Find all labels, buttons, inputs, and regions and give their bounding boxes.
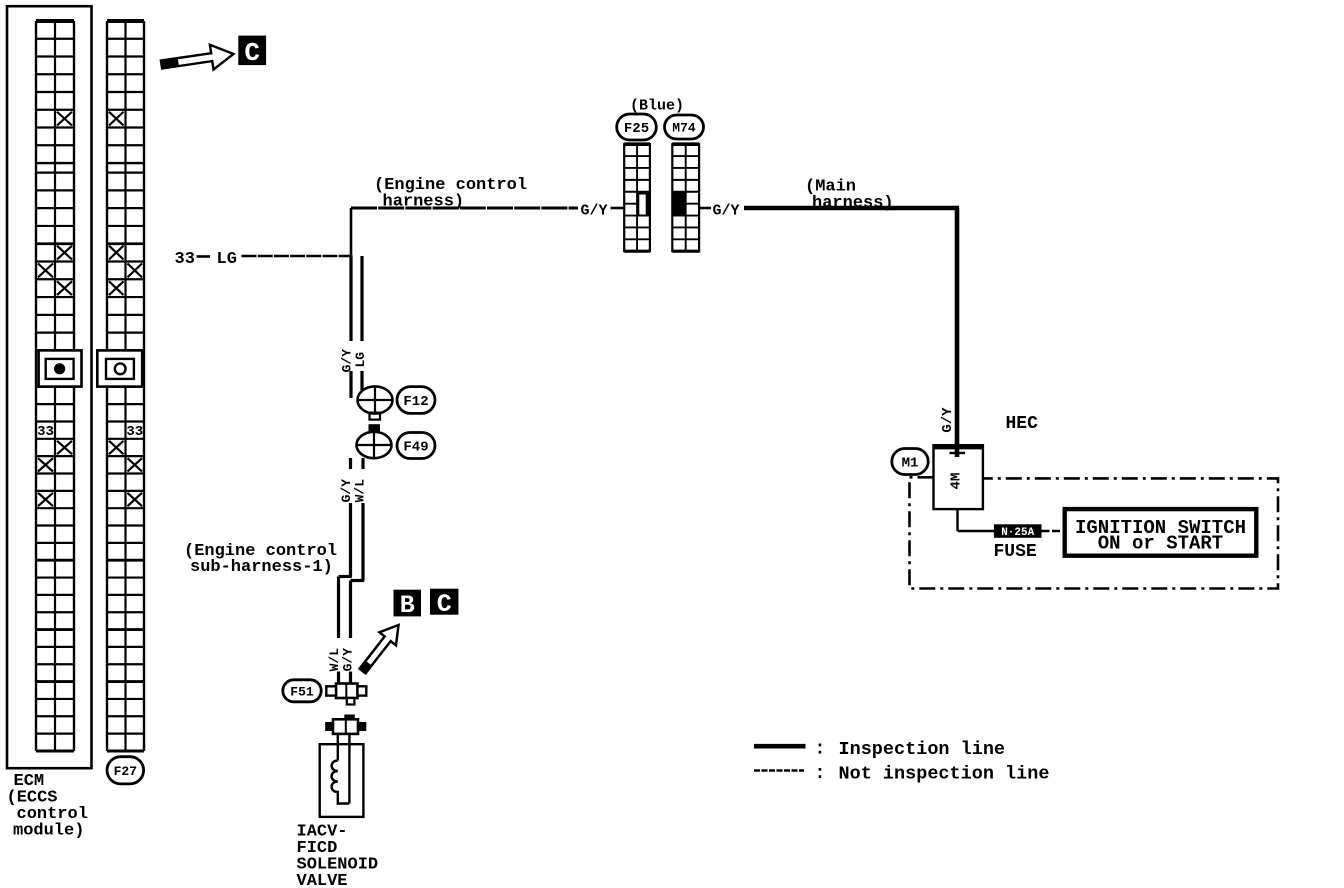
svg-text:N·25A: N·25A [1001,527,1034,539]
svg-text:sub-harness-1): sub-harness-1) [190,558,333,577]
svg-text:33: 33 [126,424,143,440]
svg-text:Inspection line: Inspection line [839,739,1006,760]
svg-text:33: 33 [175,250,195,269]
svg-text:module): module) [13,822,84,841]
svg-text:G/Y: G/Y [581,203,608,220]
svg-text:F12: F12 [403,394,428,410]
svg-text:LG: LG [217,250,237,269]
svg-text:33: 33 [37,424,54,440]
svg-text:G/Y: G/Y [341,648,356,672]
svg-text:F27: F27 [114,764,137,779]
svg-text:Not inspection line: Not inspection line [839,764,1050,785]
svg-text:C: C [244,38,260,68]
svg-text:G/Y: G/Y [940,407,956,433]
svg-text:M1: M1 [902,456,919,472]
svg-text:4M: 4M [949,473,965,490]
svg-text:LG: LG [353,352,368,368]
svg-text:W/L: W/L [353,479,368,503]
svg-text:M74: M74 [672,121,696,136]
svg-text:FUSE: FUSE [994,542,1037,562]
svg-text:G/Y: G/Y [713,203,740,220]
svg-text::: : [815,740,826,760]
svg-text:F25: F25 [624,121,649,137]
svg-text::: : [815,764,826,784]
svg-text:C: C [437,590,452,619]
svg-text:F49: F49 [403,440,428,456]
svg-text:ON or START: ON or START [1098,533,1223,555]
svg-text:F51: F51 [290,684,314,699]
svg-text:B: B [400,591,415,620]
svg-text:VALVE: VALVE [297,872,348,888]
svg-text:harness): harness) [812,194,894,213]
svg-text:HEC: HEC [1006,414,1039,434]
svg-text:(Blue): (Blue) [630,98,684,115]
